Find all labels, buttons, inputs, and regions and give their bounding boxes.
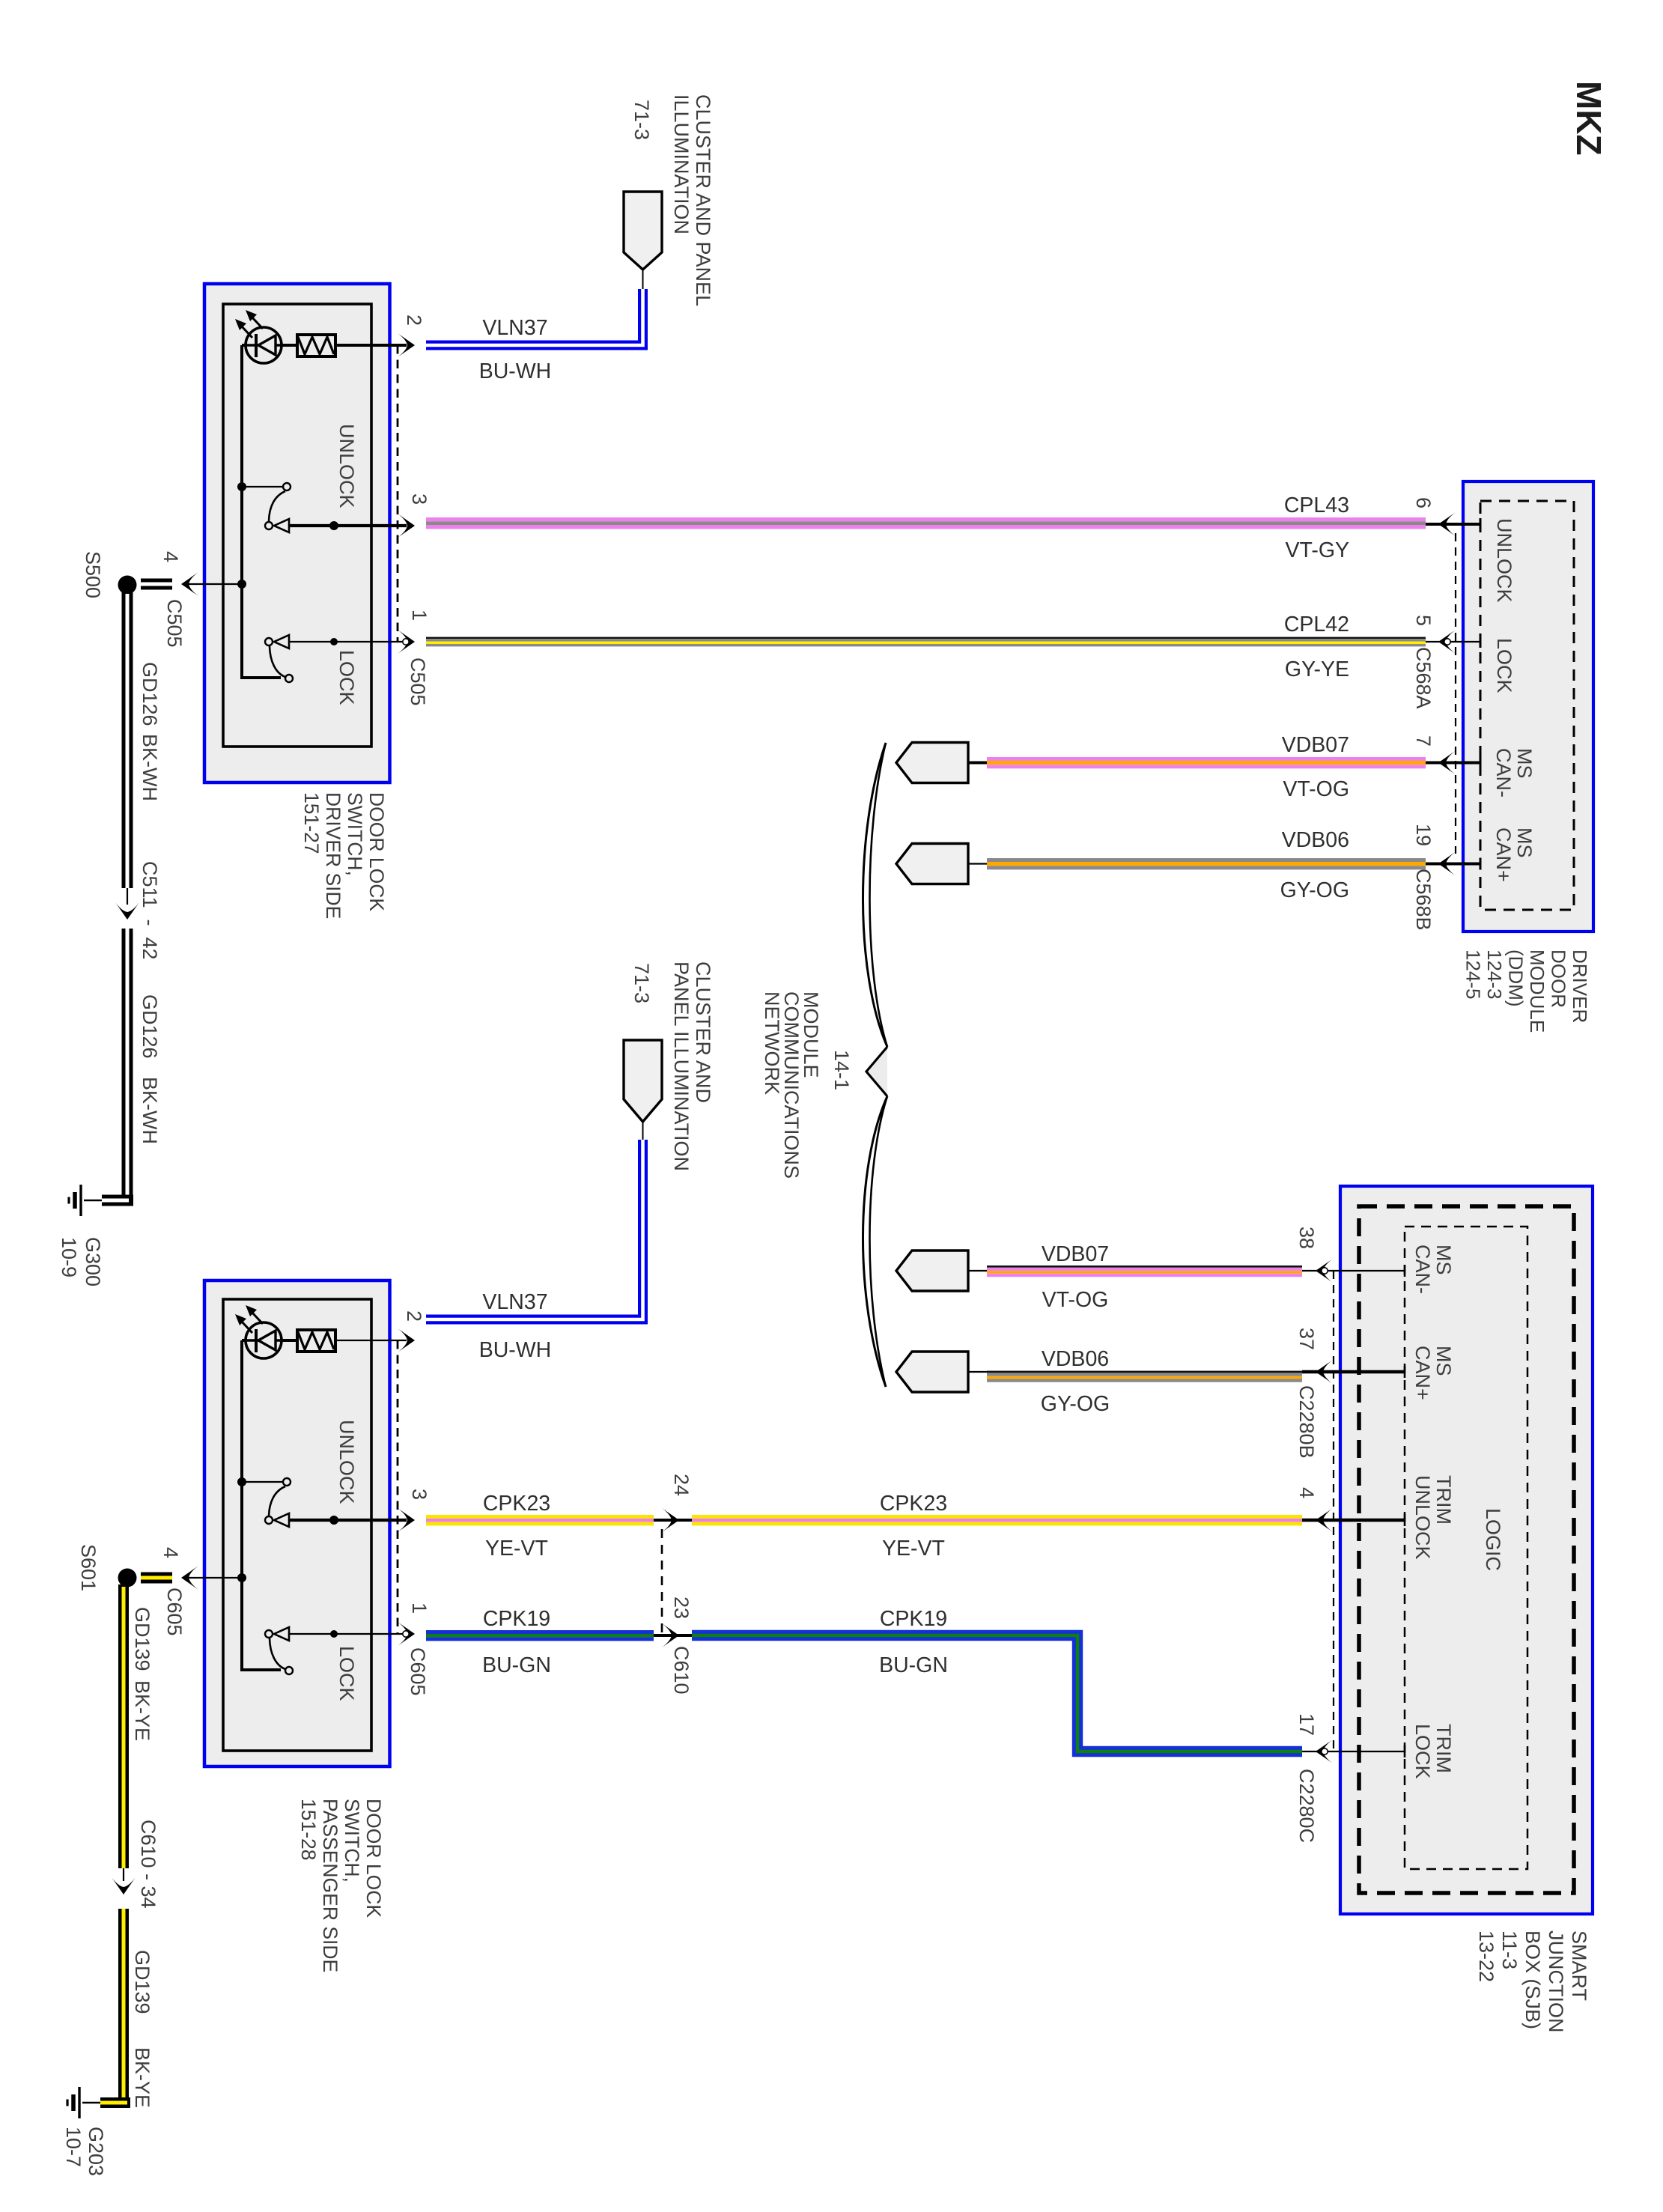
wire lock contact to pin 1 (passenger) [289,1633,407,1635]
network brace lower crescent [863,1096,887,1387]
wire unlock contact to pin 3 (driver) [289,524,407,527]
svg-text:10-7: 10-7 [62,2127,85,2167]
svg-text:BU-GN: BU-GN [879,1653,948,1677]
wire pin 4 to splice arrow (passenger) [186,1577,242,1579]
svg-text:GY-OG: GY-OG [1041,1392,1110,1416]
ground G300 [69,1185,102,1216]
svg-text:NETWORK: NETWORK [761,991,783,1095]
svg-text:LOCK: LOCK [335,650,358,705]
pin 4 arrow (driver) [181,572,198,596]
wire bus to lock switch (driver) [242,676,281,678]
svg-text:SMART: SMART [1568,1930,1590,2001]
DDM inner dashed outline [1480,501,1574,910]
svg-text:C610: C610 [670,1646,693,1695]
DDM pin 19 wire + arrow [1426,863,1480,866]
svg-text:PASSENGER SIDE: PASSENGER SIDE [319,1799,341,1972]
wire CPK19 BU-GN segment 1 [426,1630,654,1641]
svg-text:G203: G203 [85,2127,107,2176]
wire GD139 BK-YE upper segment [118,1584,129,1868]
svg-text:YE-VT: YE-VT [882,1537,945,1561]
svg-text:SWITCH,: SWITCH, [344,792,366,876]
wire VDB06 GY-OG top [987,858,1426,869]
svg-text:(DDM): (DDM) [1505,949,1527,1007]
svg-text:ILLUMINATION: ILLUMINATION [670,94,693,234]
connector C568 dashed line [1455,533,1456,854]
svg-text:LOCK: LOCK [335,1646,358,1701]
wire stub S601 BK-YE [141,1573,172,1584]
svg-text:DOOR LOCK: DOOR LOCK [365,792,388,911]
svg-text:GY-OG: GY-OG [1280,878,1349,902]
svg-text:17: 17 [1295,1713,1318,1736]
svg-text:151-28: 151-28 [297,1799,320,1861]
wire resistor to pin 2 (passenger) [335,1340,407,1341]
svg-text:C2280B: C2280B [1295,1385,1318,1459]
svg-text:MKZ: MKZ [1569,81,1608,156]
svg-text:C505: C505 [407,657,429,706]
DDM pin 6 wire + arrow [1426,523,1480,526]
svg-text:BK-YE: BK-YE [131,2047,153,2108]
connector C2280 dashed line [1333,1271,1334,1751]
wire LED bus vertical (driver) [240,345,243,678]
network brace middle point [866,1047,887,1096]
svg-text:11-3: 11-3 [1498,1930,1521,1969]
svg-text:CPK23: CPK23 [483,1492,550,1516]
svg-text:YE-VT: YE-VT [485,1537,548,1561]
svg-text:CLUSTER AND: CLUSTER AND [692,961,714,1103]
svg-text:TRIM: TRIM [1432,1724,1455,1773]
svg-text:PANEL ILLUMINATION: PANEL ILLUMINATION [670,961,693,1171]
svg-text:DRIVER SIDE: DRIVER SIDE [322,792,344,919]
svg-text:3: 3 [408,493,431,505]
connector C610 pin 24 arrow [654,1519,692,1522]
svg-text:CPL43: CPL43 [1284,493,1349,517]
pin 1 arrow (driver) [398,630,415,654]
passenger switch inner outline [223,1299,371,1751]
connector C505 dashed line [397,345,399,642]
svg-text:71-3: 71-3 [630,963,653,1003]
svg-text:DOOR: DOOR [1548,949,1570,1008]
svg-text:38: 38 [1295,1227,1318,1249]
svg-text:151-27: 151-27 [300,792,323,854]
SJB pin 38 wire + arrow [1302,1270,1405,1271]
wire VDB06 GY-OG bottom [987,1371,1302,1382]
connector to cluster illumination (mid) [642,1122,644,1140]
wire lock contact to pin 1 (driver) [289,641,407,642]
wire CPK19 BU-GN segment 2 with jog [692,1635,1302,1751]
svg-text:4: 4 [159,551,182,562]
wire GD139 BK-YE lower segment [118,1909,129,2103]
lock switch (driver) [265,638,273,645]
svg-text:7: 7 [1412,735,1435,747]
svg-text:LOCK: LOCK [1493,638,1515,693]
unlock switch (passenger) [237,1477,246,1486]
svg-text:MODULE: MODULE [1526,949,1548,1033]
svg-text:124-5: 124-5 [1462,949,1485,1000]
indicator LED (passenger) [235,1305,282,1358]
wire pin 4 to splice arrow (driver) [186,583,242,585]
svg-text:3: 3 [408,1489,431,1500]
svg-text:TRIM: TRIM [1432,1475,1455,1525]
wire CPK23 YE-VT segment 2 [692,1515,1302,1525]
svg-text:23: 23 [670,1596,693,1619]
svg-text:CPK19: CPK19 [483,1607,550,1631]
wire stub S500 to pin4 BK-WH [141,579,172,590]
offpage connector VDB06 top [896,844,968,884]
pin 1 arrow (passenger) [398,1622,415,1646]
connector C511-42 arrow [127,888,128,905]
pin 2 arrow (driver) [398,333,415,357]
SJB pin 4 wire + arrow [1302,1519,1405,1522]
svg-text:6: 6 [1412,497,1435,508]
connector C610 pin 23 arrow [654,1634,692,1637]
SJB pin 37 wire + arrow [1302,1370,1405,1373]
DDM pin 5 wire + arrow [1426,641,1480,642]
svg-text:BU-WH: BU-WH [479,1338,552,1362]
connector C610 dashed line [661,1529,663,1635]
svg-text:C605: C605 [407,1647,429,1696]
svg-text:DOOR LOCK: DOOR LOCK [362,1799,385,1918]
splice S500 [118,576,137,595]
svg-text:CAN+: CAN+ [1492,827,1515,882]
offpage connector VDB06 bottom [896,1352,968,1392]
svg-text:124-3: 124-3 [1483,949,1506,1000]
svg-text:14-1: 14-1 [830,1050,853,1090]
wire LED to resistor (driver) [242,344,297,347]
svg-text:1: 1 [408,1602,431,1614]
svg-text:C605: C605 [163,1587,186,1636]
ground G203 [67,2087,100,2118]
wire LED to resistor (passenger) [242,1339,297,1342]
svg-text:1: 1 [408,610,431,621]
svg-text:37: 37 [1295,1328,1318,1350]
svg-text:CPL42: CPL42 [1284,613,1349,636]
svg-text:71-3: 71-3 [630,100,653,140]
wire resistor to pin 2 (driver) [335,344,407,347]
svg-text:C610 - 34: C610 - 34 [137,1820,159,1909]
svg-text:CAN+: CAN+ [1411,1346,1434,1400]
svg-text:VT-OG: VT-OG [1042,1288,1109,1312]
svg-text:CLUSTER AND PANEL: CLUSTER AND PANEL [692,94,714,306]
svg-text:UNLOCK: UNLOCK [335,424,358,508]
svg-text:4: 4 [1295,1487,1318,1498]
svg-text:CPK19: CPK19 [880,1607,947,1631]
smart junction box SJB [1340,1186,1593,1914]
svg-text:VDB07: VDB07 [1042,1242,1109,1266]
wire VDB07 VT-OG top [987,757,1426,768]
wire VDB07 VT-OG bottom [987,1265,1302,1277]
svg-text:5: 5 [1412,615,1435,626]
svg-text:MS: MS [1432,1346,1455,1376]
svg-text:MS: MS [1513,827,1536,858]
svg-text:GD126: GD126 [139,994,161,1059]
wire CPL43 VT-GY [426,517,1426,529]
svg-text:VDB06: VDB06 [1282,828,1349,852]
svg-text:MS: MS [1432,1245,1455,1275]
svg-text:G300: G300 [82,1237,104,1286]
svg-text:13-22: 13-22 [1475,1930,1498,1982]
wire CPK23 YE-VT segment 1 [426,1515,654,1525]
indicator LED (driver) [235,310,282,363]
connector to cluster illumination (top) [642,270,644,289]
wire unlock contact to pin 3 (passenger) [289,1519,407,1522]
lock switch (passenger) [265,1630,273,1638]
driver switch inner outline [223,304,371,747]
svg-text:UNLOCK: UNLOCK [1411,1475,1434,1560]
svg-text:LOGIC: LOGIC [1482,1508,1504,1571]
svg-text:CAN-: CAN- [1411,1245,1434,1294]
svg-text:UNLOCK: UNLOCK [1493,518,1515,603]
svg-text:S601: S601 [77,1544,100,1591]
svg-text:C505: C505 [163,599,186,648]
wire GD126 BK-WH upper segment [122,592,133,888]
wire GD126 BK-WH lower segment [122,929,133,1200]
svg-text:10-9: 10-9 [58,1237,80,1277]
svg-text:DRIVER: DRIVER [1569,949,1591,1023]
svg-text:UNLOCK: UNLOCK [335,1420,358,1504]
svg-text:GD139: GD139 [131,1607,153,1671]
offpage connector VDB07 top [896,743,968,783]
offpage connector VDB07 bottom [896,1251,968,1291]
splice S601 [118,1569,137,1587]
svg-text:JUNCTION: JUNCTION [1545,1930,1567,2033]
svg-text:C2280C: C2280C [1295,1769,1318,1843]
svg-text:LOCK: LOCK [1411,1724,1434,1779]
svg-text:CPK23: CPK23 [880,1492,947,1516]
connector C610-34 arrow [123,1868,124,1881]
svg-text:2: 2 [403,315,425,326]
resistor (driver switch illumination) [297,335,335,356]
network brace upper crescent [863,743,887,1047]
pin 3 arrow (passenger) [398,1508,415,1532]
pin 4 junction (passenger) [237,1573,246,1582]
wire VLN37 BU-WH (passenger) [426,1140,643,1319]
svg-text:VDB07: VDB07 [1282,733,1349,757]
svg-text:C568B: C568B [1412,869,1435,931]
svg-text:24: 24 [670,1474,693,1496]
wire VLN37 BU-WH (driver) [426,289,643,345]
svg-text:BK-WH: BK-WH [139,734,161,801]
pin 3 arrow (driver) [398,514,415,538]
driver door module DDM box [1463,481,1593,932]
driver door lock switch box SW1 [204,284,390,783]
svg-text:2: 2 [403,1310,425,1322]
svg-text:BOX (SJB): BOX (SJB) [1521,1930,1544,2029]
wire LED bus vertical (passenger) [240,1340,243,1671]
svg-text:BU-GN: BU-GN [482,1653,551,1677]
svg-text:CAN-: CAN- [1492,748,1515,797]
svg-text:VT-OG: VT-OG [1283,777,1349,801]
svg-text:BU-WH: BU-WH [479,359,552,383]
svg-text:GD126: GD126 [139,662,161,726]
svg-text:VLN37: VLN37 [482,316,547,340]
svg-text:19: 19 [1412,824,1435,846]
svg-text:MS: MS [1513,748,1536,779]
svg-text:VT-GY: VT-GY [1285,538,1349,562]
pin 4 arrow (passenger) [181,1566,198,1590]
svg-text:C568A: C568A [1412,647,1435,709]
svg-text:S500: S500 [82,551,104,598]
svg-text:BK-YE: BK-YE [131,1680,153,1741]
SJB logic inner dashed outline [1405,1227,1527,1869]
svg-text:C511 - 42: C511 - 42 [139,861,161,960]
svg-text:VDB06: VDB06 [1042,1347,1109,1371]
pin 2 arrow (passenger) [398,1328,415,1352]
DDM pin 7 wire + arrow [1426,762,1480,765]
svg-text:GD139: GD139 [131,1950,153,2014]
svg-text:VLN37: VLN37 [482,1290,547,1314]
svg-text:GY-YE: GY-YE [1285,657,1349,681]
svg-text:4: 4 [159,1547,182,1558]
svg-text:SWITCH,: SWITCH, [341,1799,363,1883]
pin 4 junction (driver) [237,580,246,589]
SJB heavy dashed outline [1359,1206,1574,1893]
connector C605 dashed line [397,1340,399,1634]
svg-text:BK-WH: BK-WH [139,1077,161,1144]
resistor (passenger switch illumination) [297,1330,335,1352]
wire CPL42 GY-YE [426,637,1426,647]
SJB pin 17 wire + arrow [1302,1751,1405,1752]
unlock switch (driver) [237,482,246,491]
wire bus to lock switch (passenger) [242,1668,281,1670]
passenger door lock switch box SW2 [204,1280,390,1766]
